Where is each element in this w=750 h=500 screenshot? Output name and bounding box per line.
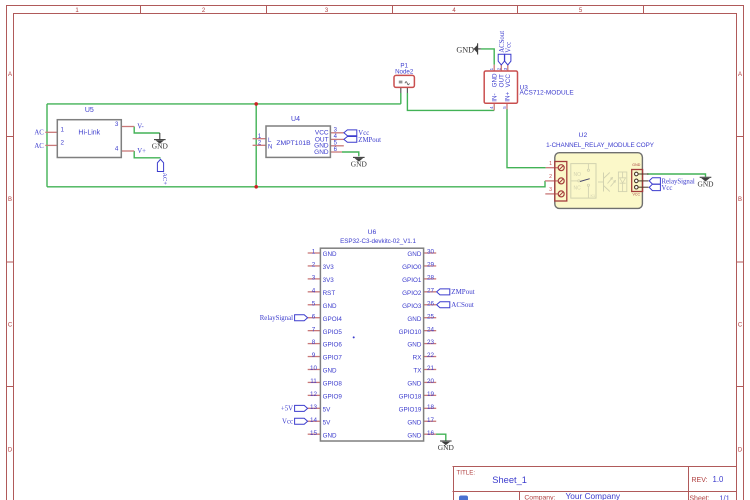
svg-text:24: 24 xyxy=(427,326,435,333)
svg-text:+5V: +5V xyxy=(281,406,293,413)
svg-text:17: 17 xyxy=(427,417,435,424)
svg-text:7: 7 xyxy=(312,326,316,333)
svg-text:ZMPout: ZMPout xyxy=(451,288,474,296)
svg-text:GPOI4: GPOI4 xyxy=(323,316,343,323)
svg-text:RX: RX xyxy=(413,355,423,362)
svg-text:2: 2 xyxy=(312,262,316,269)
svg-text:GND: GND xyxy=(323,303,337,310)
svg-text:RelaySignal: RelaySignal xyxy=(260,315,293,322)
svg-text:GND: GND xyxy=(407,316,421,323)
svg-text:D: D xyxy=(738,448,743,454)
svg-text:GPIO3: GPIO3 xyxy=(402,303,422,310)
svg-text:1: 1 xyxy=(312,249,316,256)
svg-text:6: 6 xyxy=(312,313,316,320)
svg-text:16: 16 xyxy=(427,430,435,437)
svg-text:3: 3 xyxy=(549,187,552,193)
svg-text:ESP32-C3-devkitc-02_V1.1: ESP32-C3-devkitc-02_V1.1 xyxy=(340,238,416,245)
svg-text:U4: U4 xyxy=(291,116,300,123)
svg-text:29: 29 xyxy=(427,262,435,269)
svg-text:12: 12 xyxy=(310,391,318,398)
svg-text:Your Company: Your Company xyxy=(566,491,621,500)
svg-text:GND: GND xyxy=(323,251,337,258)
svg-text:AC+: AC+ xyxy=(161,172,168,185)
svg-text:TITLE:: TITLE: xyxy=(457,470,476,477)
svg-text:GPIO2: GPIO2 xyxy=(402,290,422,297)
svg-text:GND: GND xyxy=(323,368,337,375)
svg-text:20: 20 xyxy=(427,378,435,385)
svg-text:8: 8 xyxy=(312,339,316,346)
svg-text:GPIO8: GPIO8 xyxy=(323,381,343,388)
svg-text:AC: AC xyxy=(34,143,44,150)
svg-text:18: 18 xyxy=(427,404,435,411)
svg-text:9: 9 xyxy=(312,352,316,359)
svg-text:4: 4 xyxy=(115,145,119,152)
svg-text:GND: GND xyxy=(152,142,169,151)
svg-text:19: 19 xyxy=(427,391,435,398)
svg-text:GPIO0: GPIO0 xyxy=(402,264,422,271)
svg-text:Sheet_1: Sheet_1 xyxy=(492,475,527,485)
svg-text:GND: GND xyxy=(632,163,640,167)
svg-text:A: A xyxy=(8,72,12,78)
svg-text:2: 2 xyxy=(496,67,501,70)
svg-text:NC: NC xyxy=(574,186,582,192)
svg-text:GPIO10: GPIO10 xyxy=(399,329,422,336)
svg-text:GPIO19: GPIO19 xyxy=(399,406,422,413)
svg-text:Vcc: Vcc xyxy=(282,419,293,426)
svg-text:GND: GND xyxy=(314,149,329,156)
svg-text:2: 2 xyxy=(549,174,552,180)
svg-text:U5: U5 xyxy=(85,107,94,114)
svg-text:2: 2 xyxy=(61,140,65,147)
svg-text:ACS712-MODULE: ACS712-MODULE xyxy=(520,90,575,97)
svg-text:A: A xyxy=(738,72,742,78)
svg-text:GND: GND xyxy=(407,251,421,258)
svg-text:26: 26 xyxy=(427,300,435,307)
svg-text:GPIO7: GPIO7 xyxy=(323,355,343,362)
svg-text:28: 28 xyxy=(427,274,435,281)
svg-text:30: 30 xyxy=(427,249,435,256)
svg-text:REV:: REV: xyxy=(692,477,708,484)
svg-text:N: N xyxy=(268,144,272,150)
svg-text:3V3: 3V3 xyxy=(323,277,335,284)
svg-text:3V3: 3V3 xyxy=(323,264,335,271)
svg-text:GND: GND xyxy=(407,432,421,439)
svg-text:23: 23 xyxy=(427,339,435,346)
svg-text:GPIO9: GPIO9 xyxy=(323,393,343,400)
svg-text:GND: GND xyxy=(351,160,368,169)
svg-text:5: 5 xyxy=(502,106,507,109)
svg-text:1: 1 xyxy=(549,161,552,167)
svg-text:NO: NO xyxy=(574,172,582,178)
svg-text:B: B xyxy=(8,197,12,203)
svg-text:GND: GND xyxy=(323,432,337,439)
svg-text:GND: GND xyxy=(407,381,421,388)
svg-text:GND: GND xyxy=(407,419,421,426)
svg-text:IN-: IN- xyxy=(492,93,499,101)
svg-text:U2: U2 xyxy=(579,132,588,139)
svg-text:Sheet:: Sheet: xyxy=(689,495,709,500)
svg-text:IN+: IN+ xyxy=(504,92,511,102)
svg-text:4: 4 xyxy=(312,287,316,294)
svg-text:VCC: VCC xyxy=(633,192,641,196)
svg-text:Vcc: Vcc xyxy=(662,185,673,192)
svg-text:V+: V+ xyxy=(137,148,146,155)
svg-text:TX: TX xyxy=(413,368,422,375)
svg-text:ACSout: ACSout xyxy=(451,301,474,309)
svg-text:GND: GND xyxy=(697,179,714,188)
svg-text:1: 1 xyxy=(489,67,494,70)
svg-text:GND: GND xyxy=(492,73,499,87)
svg-text:ZMPT101B: ZMPT101B xyxy=(276,140,311,147)
svg-text:GPIO6: GPIO6 xyxy=(323,342,343,349)
svg-text:15: 15 xyxy=(310,430,318,437)
svg-text:21: 21 xyxy=(427,365,435,372)
svg-text:GND: GND xyxy=(456,45,474,54)
svg-text:3: 3 xyxy=(312,274,316,281)
svg-text:V-: V- xyxy=(137,124,144,131)
svg-text:GND: GND xyxy=(407,342,421,349)
svg-text:RST: RST xyxy=(323,290,336,297)
svg-text:AC: AC xyxy=(34,130,44,137)
svg-text:K1: K1 xyxy=(591,194,596,198)
svg-text:B: B xyxy=(738,197,742,203)
svg-text:5V: 5V xyxy=(323,419,332,426)
svg-text:1.0: 1.0 xyxy=(713,475,725,484)
svg-text:5: 5 xyxy=(312,300,316,307)
svg-text:22: 22 xyxy=(427,352,435,359)
svg-text:Vcc: Vcc xyxy=(505,42,512,53)
svg-text:13: 13 xyxy=(310,404,318,411)
svg-text:Node2: Node2 xyxy=(395,69,414,76)
svg-text:GPIO1: GPIO1 xyxy=(402,277,422,284)
svg-text:3: 3 xyxy=(503,67,508,70)
svg-text:Hi-Link: Hi-Link xyxy=(78,130,100,137)
svg-text:GPIO18: GPIO18 xyxy=(399,393,422,400)
svg-text:27: 27 xyxy=(427,287,435,294)
svg-text:VCC: VCC xyxy=(505,74,512,88)
svg-text:ZMPout: ZMPout xyxy=(358,137,381,144)
svg-text:10: 10 xyxy=(310,365,318,372)
svg-text:1/1: 1/1 xyxy=(719,493,729,500)
svg-text:C: C xyxy=(8,323,13,329)
svg-text:5V: 5V xyxy=(323,406,332,413)
svg-text:3: 3 xyxy=(115,121,119,128)
svg-text:1: 1 xyxy=(61,127,65,134)
svg-text:D: D xyxy=(8,448,13,454)
svg-text:Company:: Company: xyxy=(524,494,555,500)
svg-text:4: 4 xyxy=(489,106,494,109)
svg-text:14: 14 xyxy=(310,417,318,424)
svg-text:1-CHANNEL_RELAY_MODULE COPY: 1-CHANNEL_RELAY_MODULE COPY xyxy=(546,142,655,149)
svg-text:11: 11 xyxy=(310,378,317,385)
svg-text:U6: U6 xyxy=(368,229,377,236)
svg-text:GPIO5: GPIO5 xyxy=(323,329,343,336)
svg-text:GND: GND xyxy=(438,443,455,452)
svg-text:C: C xyxy=(738,323,743,329)
svg-text:25: 25 xyxy=(427,313,435,320)
